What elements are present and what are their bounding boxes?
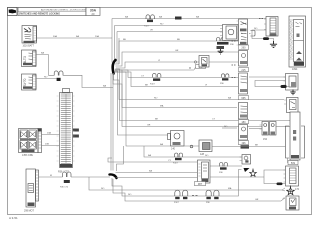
wire G5 to D1 (276, 126, 290, 128)
dashes before P2 (232, 64, 236, 66)
inline connector X6 (175, 190, 188, 199)
svg-text:GR: GR (175, 50, 179, 52)
inline connector X8 (174, 153, 182, 160)
bundle verticals top (112, 19, 119, 65)
wire B1 to bundle (37, 37, 113, 39)
svg-text:20B: 20B (45, 144, 49, 146)
F1 left stub (222, 127, 237, 129)
svg-text:AUTONOMOUS CONTROL - DOOR LOCK: AUTONOMOUS CONTROL - DOOR LOCKING (41, 9, 87, 12)
svg-text:20A: 20A (95, 35, 99, 38)
svg-text:GR: GR (147, 125, 151, 127)
fan wire y77 (115, 70, 238, 77)
U3 net tag (196, 65, 206, 69)
fan wire y70 to tag (116, 69, 195, 71)
svg-text:180: 180 (241, 121, 246, 124)
L1 right tags (73, 129, 79, 132)
wire K2 to I1 loop (210, 176, 264, 178)
right column F1 (239, 125, 248, 141)
switch pack S1 (19, 129, 42, 153)
fan wire y107 (113, 73, 237, 107)
fan wire y99 (114, 73, 285, 100)
inline connector X1 (146, 15, 154, 22)
inline connector X10 (153, 73, 161, 81)
control unit K2 (198, 160, 211, 183)
wire loop B7 (255, 81, 286, 87)
component B2 switch unit (22, 50, 37, 67)
wire B3 to K1 (36, 78, 57, 80)
box B7 (284, 74, 299, 91)
pin arrow P1 (232, 40, 236, 42)
svg-text:CY: CY (141, 75, 145, 77)
wire X5 elbow down (71, 176, 110, 178)
svg-text:CY: CY (212, 119, 216, 121)
actuator pair G5 (260, 122, 277, 136)
lower bus y172 (116, 172, 198, 174)
svg-text:1353 CPE: 1353 CPE (22, 154, 33, 157)
fan wire y41 (115, 41, 238, 64)
lower bus y196 (112, 170, 242, 197)
lower bus y162 (108, 158, 197, 162)
fan drop to y120 (D1) (115, 69, 290, 121)
lower bus y201 (113, 179, 281, 201)
fan wire y86 (115, 72, 239, 87)
right column E1 (239, 103, 248, 120)
P1 mate bracket (251, 31, 256, 37)
wire loop I1 (264, 170, 286, 184)
svg-text:SWITCHES AND REMOTE LOCKING: SWITCHES AND REMOTE LOCKING (19, 13, 60, 16)
inline connector K1 (54, 71, 63, 81)
inline connector X5 (63, 172, 72, 183)
drop to lower bus 2 (110, 73, 112, 171)
door lock M1 (168, 131, 185, 147)
wire bus y18 (112, 18, 266, 20)
wire A1 to B7 (249, 76, 286, 78)
svg-text:M: M (50, 175, 52, 177)
wire to K3 (140, 145, 199, 147)
splice Z3 (244, 168, 250, 172)
svg-text:172: 172 (295, 188, 300, 191)
tall unit D1 (286, 112, 305, 160)
svg-text:NO: NO (101, 188, 105, 190)
box C5 (284, 98, 298, 113)
right column A1 (239, 73, 248, 94)
siren H1 (220, 25, 238, 41)
fan drop to y135 (M1) (115, 71, 168, 135)
wire D1 to I1 (287, 158, 289, 163)
wire H2 left (144, 146, 242, 157)
svg-text:260: 260 (241, 47, 246, 50)
svg-text:NO: NO (254, 28, 258, 30)
logo glyph (9, 9, 17, 13)
inline connector X11 (222, 74, 229, 81)
wire P1 to bracket (249, 33, 251, 35)
wire blob to B7 (287, 86, 289, 88)
svg-text:NO: NO (128, 194, 132, 196)
wire K2 to H2 (210, 165, 242, 167)
L1 pin ticks left (57, 96, 59, 161)
svg-text:20A: 20A (47, 132, 51, 135)
title divider (18, 10, 86, 12)
wire bus y31 (117, 31, 222, 33)
fan drop to y146 (K3) (115, 72, 140, 146)
right column P2 (239, 51, 248, 67)
wire U3 to P2 (209, 61, 238, 63)
P2 caption tag (239, 68, 249, 72)
splice Z2 (110, 174, 117, 178)
wire S1 upper to L1 (42, 134, 60, 136)
svg-text:A 3-51: A 3-51 (9, 216, 18, 220)
sensor J1 (286, 196, 299, 210)
splice blob B7 (281, 85, 287, 88)
motor unit M2 (26, 169, 39, 207)
A1 caption tag (239, 96, 249, 100)
ground G4 under B7 (290, 90, 295, 95)
wire blob to ground (269, 39, 274, 42)
pin arrow A1 (232, 76, 236, 78)
wire bus y25 (115, 25, 239, 27)
wire S1 lower to L1 (42, 145, 60, 147)
L1 pin ticks right (73, 96, 75, 161)
U3 node dot (189, 67, 190, 68)
sheet number box (86, 8, 100, 16)
wire arrow into I1 (282, 188, 285, 191)
H2 caption tag (241, 145, 250, 148)
svg-text:987: 987 (198, 182, 203, 186)
E1 caption tag (239, 120, 249, 124)
component B1 ignition-supply unit (22, 26, 37, 44)
net tag under X2 (217, 46, 225, 49)
svg-text:665: 665 (241, 97, 246, 100)
component B3 KSY70 unit (22, 74, 37, 90)
title block cell (18, 8, 86, 16)
ground star GS1 (287, 186, 295, 195)
svg-text:30A: 30A (53, 35, 57, 38)
right column H2 (240, 155, 251, 165)
svg-text:NO: NO (224, 126, 228, 128)
K2 caption tag (195, 182, 206, 186)
splice blob Q (263, 37, 269, 40)
ground G3 (250, 169, 257, 177)
ground G1 under Q1 (270, 41, 277, 47)
svg-text:154: 154 (263, 138, 268, 141)
connector circle U3 feed (194, 61, 196, 63)
ECU U1 (289, 16, 306, 67)
fan wire y52 (116, 52, 239, 66)
logo box (8, 8, 18, 16)
svg-text:CY: CY (168, 160, 172, 162)
wire from fan into Z2 (117, 146, 124, 171)
svg-text:30A: 30A (90, 8, 97, 12)
fan wire y62 (116, 62, 199, 68)
fan drop to y126 (G5) (115, 70, 262, 127)
unit box U3 (199, 56, 209, 68)
inline connector X9 (220, 163, 228, 170)
inline connector X2 (217, 38, 229, 45)
lower bus y177 (116, 177, 198, 179)
F1 caption tag (239, 141, 249, 145)
svg-text:GR: GR (255, 199, 259, 201)
net tag y18 (175, 17, 182, 20)
P1 caption tag (239, 45, 249, 50)
D1 caption tag (288, 161, 298, 165)
svg-text:128: 128 (200, 153, 205, 156)
connector I1 (284, 166, 299, 186)
wire B2 to K1 (36, 55, 54, 76)
splice Z1 (113, 60, 116, 74)
svg-text:NO: NO (160, 24, 164, 26)
connector strip L1 (60, 89, 73, 168)
tag stub (194, 67, 196, 70)
connector Q1 (264, 17, 278, 37)
svg-text:215: 215 (241, 69, 246, 72)
svg-text:299 MOT: 299 MOT (24, 210, 35, 213)
svg-text:MA: MA (228, 187, 232, 190)
svg-text:R36 CT0: R36 CT0 (60, 187, 69, 189)
splice marks between pairs (192, 195, 198, 197)
wire K3 to D1 (212, 146, 286, 148)
wire M2 to X5 (39, 176, 63, 178)
svg-text:1016 BATT: 1016 BATT (23, 45, 35, 48)
ground G2 under X2 (218, 49, 224, 54)
right column P1 (237, 19, 248, 45)
pin arrow Q1 (259, 18, 263, 20)
svg-text:MA: MA (160, 104, 164, 107)
splice blob I1 (277, 183, 283, 186)
Q1 ground loop (252, 30, 266, 39)
wire branch down to y190 (89, 177, 282, 190)
relay K3 (190, 140, 212, 152)
svg-text:NO: NO (154, 98, 158, 100)
wire F1 to G5 (249, 128, 262, 130)
drop to lower bus (112, 73, 114, 171)
svg-text:509: 509 (291, 162, 296, 165)
svg-text:1094: 1094 (292, 68, 298, 71)
arrow into J1 (281, 197, 284, 201)
svg-text:NO: NO (44, 77, 48, 79)
wire K1 to splice (63, 75, 113, 87)
svg-text:NO: NO (205, 155, 209, 157)
L1 right tag 2 (73, 135, 79, 138)
inline connector X7 (206, 190, 219, 199)
svg-text:140: 140 (171, 148, 176, 151)
svg-text:196: 196 (241, 142, 246, 145)
